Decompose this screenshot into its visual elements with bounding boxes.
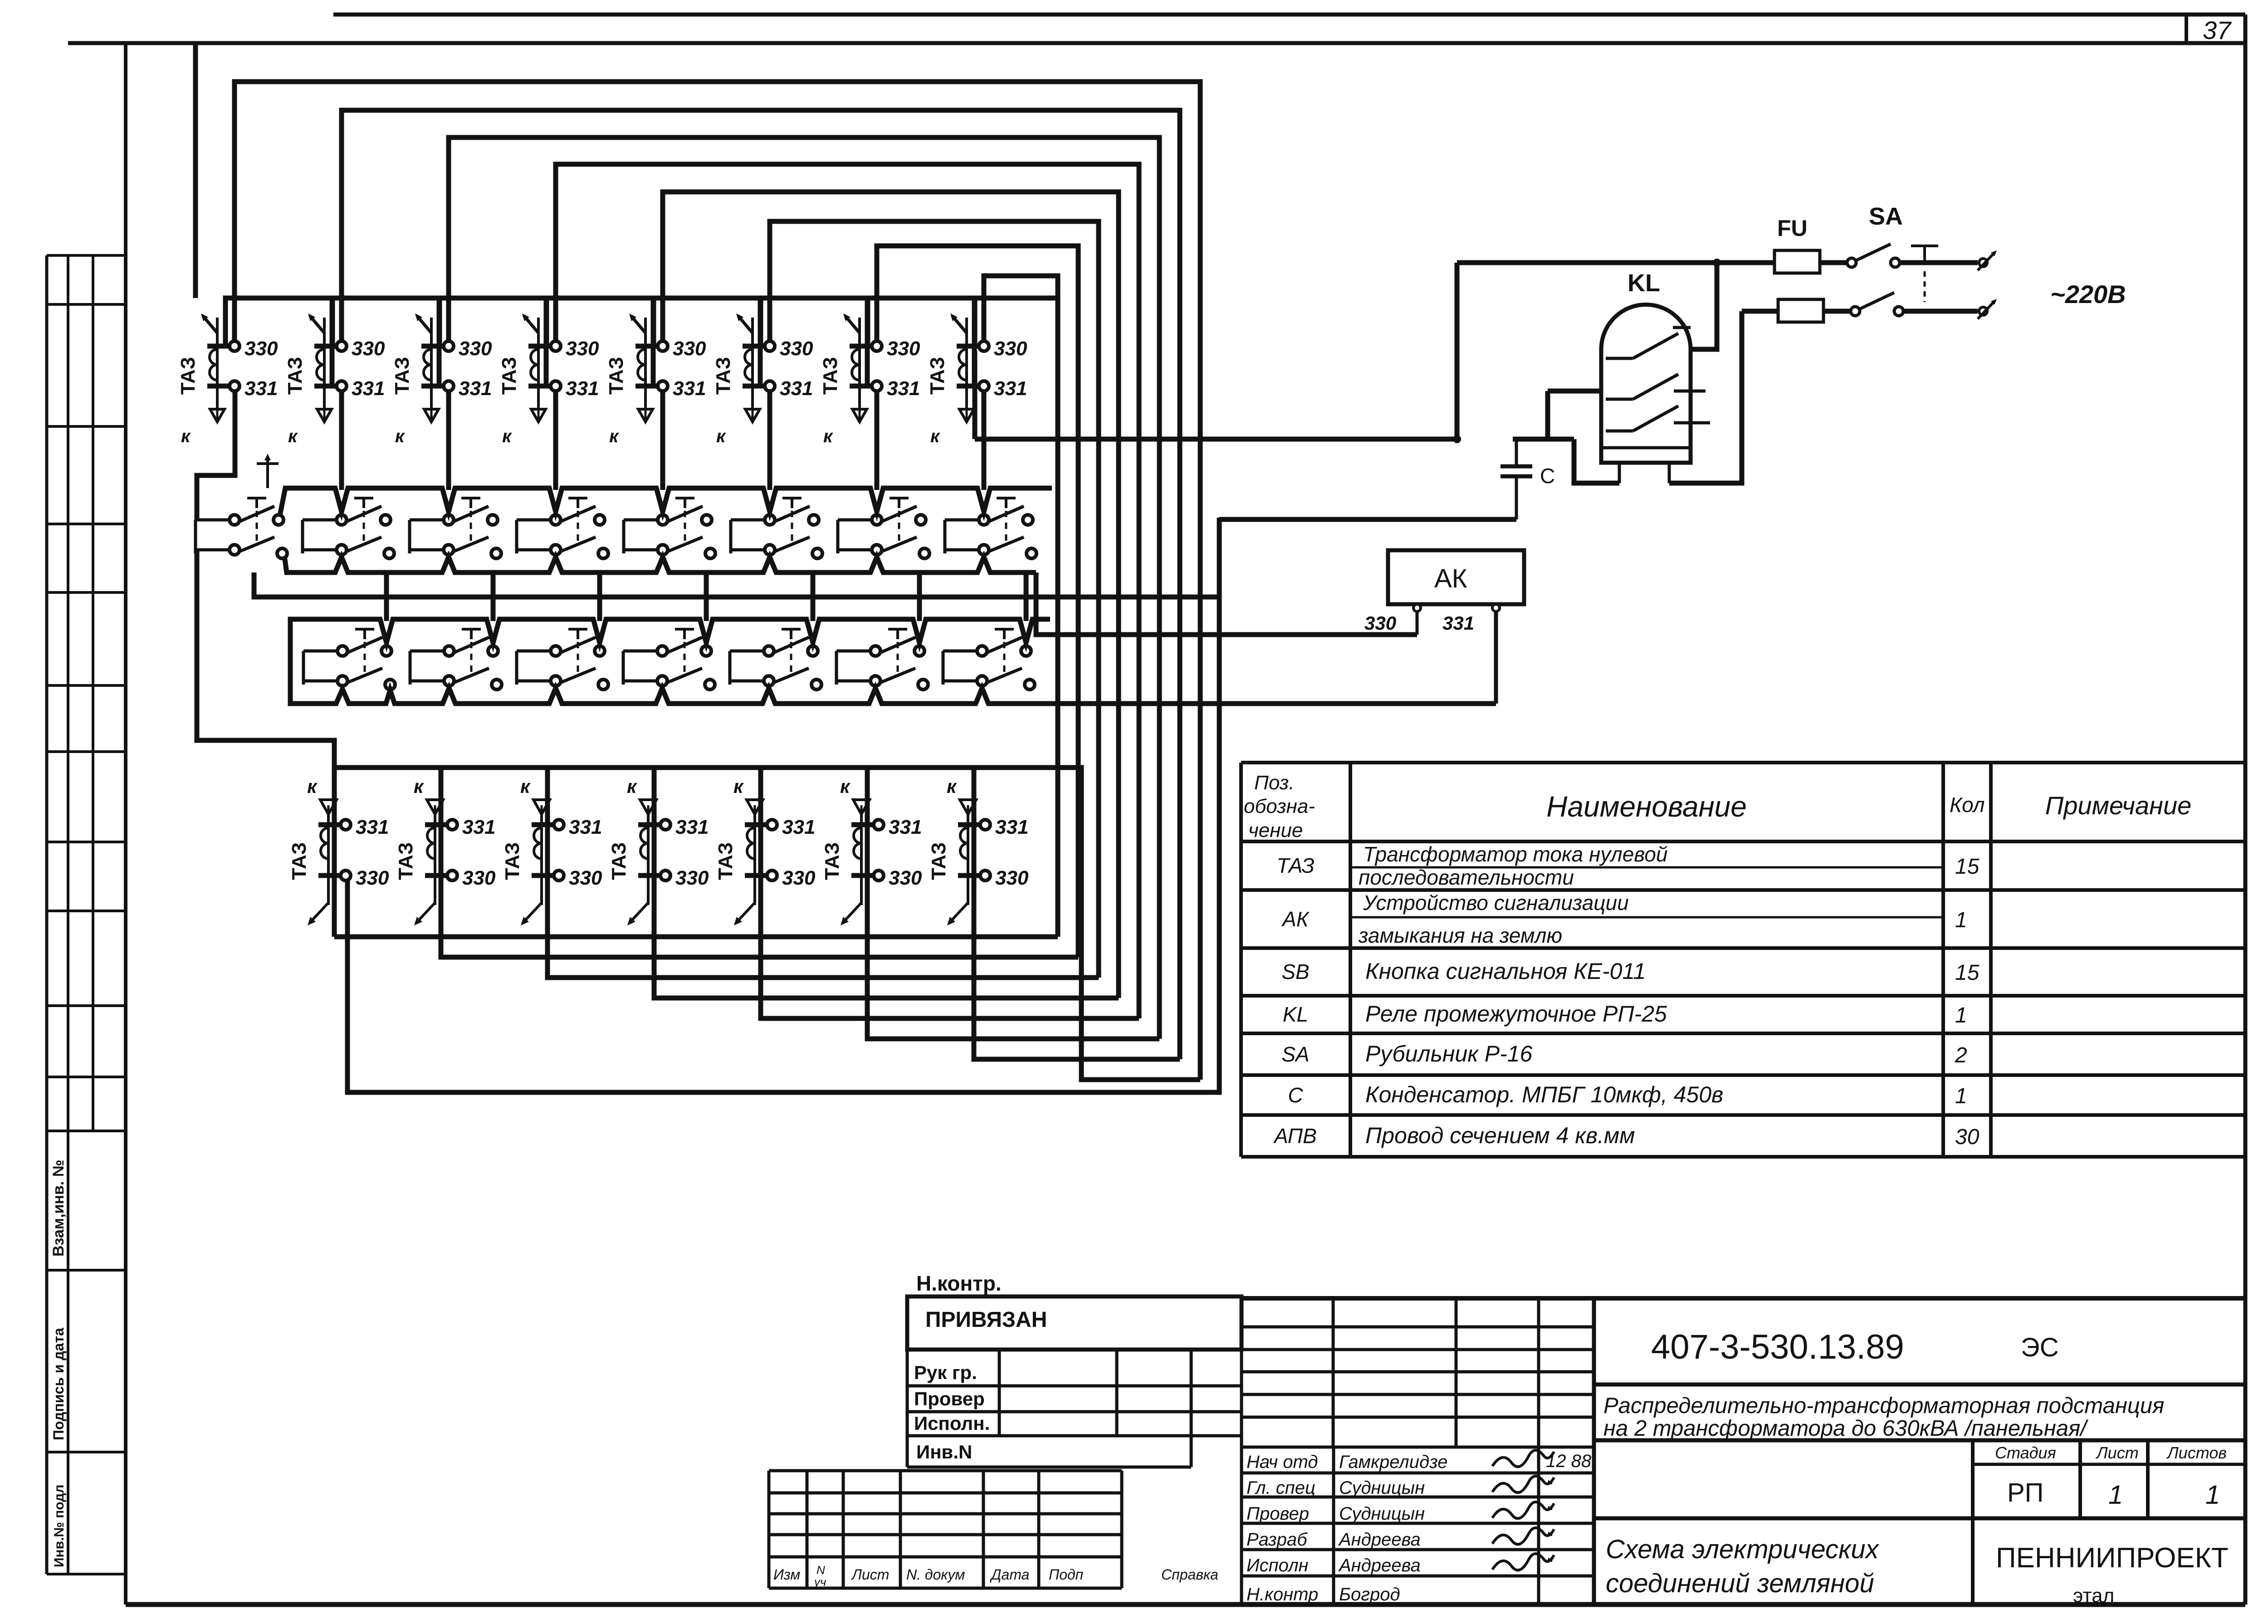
- svg-text:ЭС: ЭС: [2021, 1333, 2059, 1362]
- button SB10 (row 2) actuator T: [462, 629, 481, 676]
- svg-text:к: к: [716, 426, 726, 446]
- node AK terminal 330: [1413, 604, 1421, 611]
- svg-text:к: к: [930, 426, 940, 446]
- fuse FU2: [1778, 299, 1823, 322]
- svg-text:330: 330: [994, 338, 1027, 360]
- svg-text:C: C: [1540, 464, 1555, 488]
- wire jumper TA3 top #8: [975, 298, 1058, 346]
- svg-text:330: 330: [244, 338, 278, 360]
- svg-text:330: 330: [673, 338, 706, 360]
- wire jumper TA3 bottom #13 over to #14: [761, 768, 873, 876]
- svg-text:Справка: Справка: [1161, 1566, 1218, 1583]
- transformer TA3 #12 (bottom row): [608, 776, 709, 925]
- wire jumper TA3 bottom #9 over to #10: [334, 768, 447, 876]
- button SB15 (row 2) bracket: [943, 651, 977, 685]
- node terminal L (to 220V): [1978, 250, 1997, 270]
- svg-text:Изм: Изм: [773, 1566, 800, 1583]
- svg-text:ПЕННИИПРОЕКТ: ПЕННИИПРОЕКТ: [1996, 1542, 2229, 1574]
- svg-text:к: к: [840, 776, 850, 797]
- wire SA1 to terminal: [1900, 260, 1978, 265]
- switch SA actuator mark: [1911, 246, 1938, 302]
- button SB8 (row 1) contacts: [979, 506, 1036, 558]
- svg-text:330: 330: [889, 867, 922, 889]
- button SB13 (row 2) contacts: [764, 637, 821, 690]
- svg-text:KL: KL: [1283, 1003, 1308, 1026]
- svg-text:Гл. спец: Гл. спец: [1246, 1478, 1315, 1498]
- svg-text:ТАЗ: ТАЗ: [928, 842, 950, 880]
- svg-text:331: 331: [887, 377, 920, 400]
- node AK terminal 331: [1492, 604, 1500, 611]
- svg-text:Поз.: Поз.: [1254, 772, 1295, 794]
- fuse FU1: [1774, 250, 1820, 273]
- svg-text:Гамкрелидзе: Гамкрелидзе: [1339, 1452, 1447, 1472]
- svg-text:к: к: [181, 426, 191, 446]
- svg-text:уч: уч: [813, 1575, 826, 1589]
- svg-text:330: 330: [356, 867, 389, 889]
- wire staircase return #3 from TA3#11: [547, 828, 1099, 978]
- svg-text:АК: АК: [1281, 907, 1310, 931]
- signature row Разраб: [1246, 1528, 1554, 1550]
- svg-text:Подп: Подп: [1049, 1566, 1083, 1583]
- svg-text:Лист: Лист: [2096, 1443, 2139, 1462]
- svg-text:к: к: [307, 776, 318, 797]
- svg-text:330: 330: [459, 338, 492, 360]
- wire node line 330-chain to KL (y968): [975, 263, 1457, 439]
- svg-text:331: 331: [462, 816, 495, 838]
- svg-text:Исполн: Исполн: [1246, 1556, 1309, 1575]
- svg-text:N. докум: N. докум: [906, 1566, 965, 1583]
- svg-text:ПРИВЯЗАН: ПРИВЯЗАН: [925, 1308, 1047, 1332]
- svg-text:331: 331: [356, 816, 389, 838]
- svg-text:15: 15: [1955, 961, 1980, 985]
- button SB12 (row 2) contacts: [657, 637, 715, 690]
- svg-text:Примечание: Примечание: [2045, 791, 2192, 820]
- svg-text:330: 330: [569, 867, 602, 889]
- left margin stamp grid: [47, 255, 126, 1574]
- wire jumper TA3 top #4 to #5: [547, 298, 657, 386]
- svg-text:330: 330: [995, 867, 1029, 889]
- button SB14 (row 2) bracket: [836, 651, 870, 685]
- svg-text:к: к: [502, 426, 512, 446]
- button SB9 (row 2) contacts: [337, 637, 395, 690]
- svg-text:330: 330: [780, 338, 813, 360]
- title block PRIVYAZAN box: [907, 1296, 1242, 1350]
- svg-text:Провер: Провер: [1246, 1504, 1309, 1524]
- relay KL contact 2: [1606, 374, 1706, 399]
- wire staircase return #7 from TA3#15: [974, 828, 1180, 1059]
- wire drop TA3#4 331 to SB row1: [553, 391, 558, 490]
- wire jumper TA3 bottom #12 over to #13: [654, 768, 767, 876]
- button SB5 (row 1) contacts: [658, 506, 715, 558]
- button SB15 (row 2) contacts: [977, 637, 1035, 690]
- svg-text:Рубильник Р-16: Рубильник Р-16: [1365, 1041, 1533, 1066]
- button SB5 (row 1) bracket: [624, 520, 657, 553]
- relay KL contact 3: [1606, 406, 1710, 431]
- title block right box: [1242, 1298, 2245, 1603]
- svg-text:Н.контр: Н.контр: [1246, 1585, 1318, 1604]
- transformer TA3 #8 (top row): [926, 313, 1027, 446]
- svg-text:331: 331: [352, 377, 385, 400]
- svg-text:15: 15: [1955, 855, 1980, 879]
- svg-text:330: 330: [352, 338, 385, 360]
- bottom-left revision grid: [769, 1471, 1122, 1588]
- signature row Гл. спец: [1246, 1476, 1554, 1498]
- svg-text:": ": [1546, 1477, 1553, 1497]
- svg-text:Инв.№ подл: Инв.№ подл: [52, 1485, 67, 1567]
- transformer TA3 #9 (bottom row): [288, 776, 389, 925]
- wire loop 2 from TA3 #2 terminal 330: [342, 110, 1180, 1059]
- button SB11 (row 2) actuator T: [568, 629, 587, 676]
- button SB1 (row 1) bracket: [196, 520, 229, 553]
- device AK box: [1388, 550, 1524, 604]
- svg-text:Рук гр.: Рук гр.: [914, 1362, 977, 1383]
- svg-text:330: 330: [1364, 612, 1396, 634]
- wire loop 6 from TA3 #6 terminal 330: [770, 221, 1099, 978]
- wire drop TA3#6 331 to SB row1: [767, 391, 772, 490]
- wire drop TA3#1 331 to SB1 bracket: [197, 391, 235, 520]
- wire loop 1 from TA3 #1 terminal 330: [235, 82, 1200, 1080]
- svg-text:Трансформатор тока нулевой: Трансформатор тока нулевой: [1363, 842, 1667, 866]
- svg-text:Подпись и дата: Подпись и дата: [50, 1328, 67, 1440]
- title block middle grid: [1242, 1298, 1594, 1603]
- button SB7 (row 1) contacts: [872, 506, 929, 558]
- wire SB row1 bottom chain: [284, 556, 1036, 572]
- transformer TA3 #2 (top row): [284, 313, 385, 446]
- button SB3 (row 1) bracket: [410, 520, 443, 553]
- svg-text:": ": [1546, 1555, 1553, 1575]
- svg-text:к: к: [414, 776, 424, 797]
- wire SB row2 bottom chain to AK 331: [318, 688, 1496, 704]
- svg-text:KL: KL: [1628, 269, 1660, 297]
- svg-text:Листов: Листов: [2166, 1443, 2227, 1462]
- table row АПВ: [1273, 1123, 1980, 1149]
- button SB11 (row 2) bracket: [517, 651, 550, 685]
- svg-text:ТАЗ: ТАЗ: [395, 842, 417, 880]
- svg-text:соединений земляной: соединений земляной: [1606, 1569, 1874, 1598]
- transformer TA3 #6 (top row): [712, 313, 813, 446]
- svg-text:12 88: 12 88: [1546, 1451, 1592, 1471]
- svg-text:Провер: Провер: [914, 1388, 985, 1409]
- button SB1 (row 1) actuator T: [247, 498, 266, 545]
- button SB7 (row 1) actuator T: [890, 498, 909, 545]
- svg-text:Инв.N: Инв.N: [916, 1441, 972, 1463]
- svg-text:обозна-: обозна-: [1244, 795, 1315, 817]
- svg-text:Андреева: Андреева: [1338, 1530, 1421, 1550]
- svg-text:331: 331: [459, 377, 492, 400]
- wire drop TA3#3 331 to SB row1: [446, 391, 451, 490]
- wire staircase return #4 from TA3#12: [654, 828, 1119, 998]
- svg-text:SA: SA: [1869, 203, 1903, 230]
- svg-text:Судницын: Судницын: [1339, 1504, 1425, 1524]
- svg-text:~220В: ~220В: [2050, 280, 2126, 308]
- svg-text:Нач отд: Нач отд: [1246, 1452, 1318, 1472]
- svg-text:АПВ: АПВ: [1273, 1124, 1317, 1148]
- svg-text:331: 331: [780, 377, 813, 400]
- table row ТАЗ: [1276, 842, 1979, 889]
- svg-text:к: к: [609, 426, 619, 446]
- svg-text:Н.контр.: Н.контр.: [916, 1272, 1002, 1295]
- svg-text:ТАЗ: ТАЗ: [177, 357, 199, 395]
- svg-text:ТАЗ: ТАЗ: [288, 842, 310, 880]
- wire staircase return #5 from TA3#13: [761, 828, 1139, 1018]
- wire jumper TA3 top #3 to #4: [440, 298, 550, 386]
- transformer TA3 #10 (bottom row): [395, 776, 496, 925]
- junction dot KL supply: [1713, 259, 1721, 267]
- button SB14 (row 2) actuator T: [888, 629, 907, 676]
- svg-text:Устройство сигнализации: Устройство сигнализации: [1363, 891, 1629, 915]
- wire fuse FU2 line: [1742, 309, 1778, 314]
- signature row Провер: [1246, 1502, 1554, 1524]
- wire jumper TA3 top #1 to #2: [225, 298, 336, 386]
- button SB13 (row 2) bracket: [730, 651, 763, 685]
- button SB2 (row 1) actuator T: [354, 498, 373, 545]
- svg-text:Разраб: Разраб: [1246, 1530, 1308, 1550]
- wire TA3#8 330 drop to KL line: [973, 351, 978, 439]
- button SB3 (row 1) actuator T: [461, 498, 480, 545]
- svg-text:Исполн.: Исполн.: [914, 1413, 990, 1434]
- svg-text:ТАЗ: ТАЗ: [501, 842, 523, 880]
- svg-text:331: 331: [994, 377, 1027, 400]
- svg-text:1: 1: [1955, 1084, 1967, 1108]
- switch SA pole 2: [1851, 293, 1903, 316]
- svg-text:Богрод: Богрод: [1339, 1585, 1400, 1604]
- svg-text:к: к: [520, 776, 531, 797]
- button SB7 (row 1) bracket: [838, 520, 871, 553]
- svg-text:к: к: [823, 426, 833, 446]
- wire jumper TA3 bottom #10 over to #11: [441, 768, 553, 876]
- switch SA pole 1: [1847, 244, 1900, 267]
- button SB4 (row 1) actuator T: [568, 498, 587, 545]
- dagger symbol at SB row1 left end: [257, 454, 279, 488]
- button SB13 (row 2) actuator T: [782, 629, 801, 676]
- wire SB row1 top chain: [280, 488, 1052, 515]
- button SB11 (row 2) contacts: [551, 637, 608, 690]
- svg-text:к: к: [627, 776, 637, 797]
- wire feed from top frame to TA3 #1 jumper: [193, 45, 198, 298]
- wire supply top line to FU1: [1457, 260, 1774, 265]
- svg-text:1: 1: [2205, 1480, 2220, 1510]
- svg-text:331: 331: [244, 377, 278, 400]
- signature row Исполн: [1246, 1554, 1554, 1575]
- transformer TA3 #4 (top row): [498, 313, 599, 446]
- svg-text:Наименование: Наименование: [1546, 790, 1747, 823]
- wire SB row1 bus below: [254, 572, 1219, 597]
- svg-text:331: 331: [675, 816, 709, 838]
- wire staircase return #2 from TA3#10: [441, 828, 1078, 957]
- wire drop TA3#5 331 to SB row1: [660, 391, 665, 490]
- button SB8 (row 1) bracket: [945, 520, 978, 553]
- svg-text:ТАЗ: ТАЗ: [1276, 854, 1314, 877]
- svg-text:331: 331: [889, 816, 922, 838]
- table row KL: [1283, 1001, 1967, 1027]
- svg-text:330: 330: [462, 867, 496, 889]
- transformer TA3 #5 (top row): [605, 313, 706, 446]
- button SB10 (row 2) contacts: [444, 637, 502, 690]
- svg-text:FU: FU: [1777, 215, 1808, 241]
- svg-text:С: С: [1288, 1083, 1303, 1107]
- svg-text:к: к: [288, 426, 298, 446]
- svg-text:": ": [1546, 1503, 1553, 1523]
- button SB10 (row 2) bracket: [410, 651, 444, 685]
- button SB2 (row 1) contacts: [337, 506, 394, 558]
- button SB12 (row 2) actuator T: [675, 629, 694, 676]
- svg-text:Стадия: Стадия: [1995, 1443, 2056, 1462]
- button SB4 (row 1) contacts: [551, 506, 608, 558]
- wire FU2 to SA2: [1823, 309, 1851, 314]
- button SB15 (row 2) actuator T: [995, 629, 1014, 676]
- wire long return from TA3#9 330 to C-line riser: [347, 518, 1219, 1092]
- svg-text:30: 30: [1955, 1125, 1980, 1149]
- svg-text:ТАЗ: ТАЗ: [284, 357, 306, 395]
- svg-text:последовательности: последовательности: [1359, 866, 1574, 889]
- svg-text:1: 1: [1955, 1003, 1967, 1027]
- table row С: [1288, 1082, 1967, 1108]
- wire loop 7 from TA3 #7 terminal 330: [877, 246, 1078, 957]
- svg-text:ТАЗ: ТАЗ: [926, 357, 948, 395]
- sheet number box 37: [2186, 15, 2232, 44]
- svg-text:330: 330: [887, 338, 920, 360]
- svg-text:2: 2: [1955, 1043, 1967, 1067]
- button SB6 (row 1) bracket: [731, 520, 764, 553]
- transformer TA3 #13 (bottom row): [714, 776, 816, 925]
- button SB8 (row 1) actuator T: [997, 498, 1016, 545]
- svg-text:SA: SA: [1281, 1042, 1309, 1066]
- svg-text:Лист: Лист: [851, 1566, 889, 1583]
- svg-text:1: 1: [1955, 908, 1967, 932]
- svg-text:ТАЗ: ТАЗ: [714, 842, 737, 880]
- button SB3 (row 1) contacts: [444, 506, 501, 558]
- svg-text:Кнопка сигнальноя КЕ-011: Кнопка сигнальноя КЕ-011: [1365, 959, 1646, 984]
- page frame bottom border: [126, 1602, 2245, 1607]
- svg-text:407-3-530.13.89: 407-3-530.13.89: [1651, 1328, 1904, 1366]
- transformer TA3 #14 (bottom row): [821, 776, 922, 925]
- svg-text:к: к: [395, 426, 405, 446]
- svg-text:замыкания на землю: замыкания на землю: [1358, 924, 1562, 947]
- table row SA: [1281, 1041, 1967, 1067]
- svg-text:Реле промежуточное РП-25: Реле промежуточное РП-25: [1365, 1001, 1667, 1027]
- svg-text:": ": [1546, 1529, 1553, 1549]
- wire KL left lower connections: [1548, 389, 1601, 394]
- svg-text:ТАЗ: ТАЗ: [712, 357, 734, 395]
- wire drop TA3#8 331 to SB row1: [982, 391, 987, 490]
- wire jumper TA3 bottom #15 right side: [974, 768, 1200, 1080]
- wire jumper TA3 top #6 to #7: [761, 298, 871, 386]
- table row АК: [1281, 891, 1967, 947]
- components table grid: [1241, 763, 2245, 1157]
- svg-text:ТАЗ: ТАЗ: [819, 357, 841, 395]
- wire SB row2 outer bracket unit1: [290, 619, 318, 704]
- page frame right border: [2244, 15, 2248, 1604]
- svg-text:к: к: [733, 776, 744, 797]
- wire staircase return #6 from TA3#14: [867, 828, 1159, 1039]
- wire jumper TA3 bottom #11 over to #12: [547, 768, 660, 876]
- transformer TA3 #15 (bottom row): [928, 776, 1029, 925]
- relay KL coil body: [1601, 305, 1691, 484]
- transformer TA3 #7 (top row): [819, 313, 920, 446]
- svg-text:330: 330: [782, 867, 816, 889]
- svg-text:на 2 трансформатора до 630кВА: на 2 трансформатора до 630кВА /панельная…: [1603, 1416, 2088, 1441]
- wire SB row1 end drop to AK 330 line: [1036, 572, 1417, 635]
- page frame left border: [124, 43, 127, 1604]
- svg-text:331: 331: [782, 816, 815, 838]
- svg-text:330: 330: [566, 338, 599, 360]
- button SB1 (row 1) contacts: [230, 506, 287, 558]
- wire KL right to fuse FU2 line: [1669, 311, 1742, 483]
- svg-text:Судницын: Судницын: [1339, 1478, 1425, 1498]
- button SB6 (row 1) actuator T: [782, 498, 802, 545]
- wire loop 8 from TA3 #8 terminal 330: [984, 276, 1058, 937]
- wire drop TA3#7 331 to SB row1: [875, 391, 880, 490]
- capacitor C: [1501, 439, 1532, 519]
- wire jumper TA3 top #7 to #8: [868, 298, 978, 386]
- svg-text:Схема электрических: Схема электрических: [1606, 1535, 1880, 1564]
- svg-text:ТАЗ: ТАЗ: [821, 842, 843, 880]
- svg-text:этал: этал: [2073, 1585, 2114, 1607]
- wire feeds SB row1 bottom to SB row2: [384, 572, 389, 621]
- transformer TA3 #3 (top row): [391, 313, 492, 446]
- button SB2 (row 1) bracket: [303, 520, 336, 553]
- table header texts: [1244, 772, 2191, 841]
- relay KL contact 1: [1606, 328, 1691, 358]
- svg-text:к: к: [947, 776, 957, 797]
- wire loop 3 from TA3 #3 terminal 330: [449, 137, 1159, 1039]
- wire SB row2 top chain: [299, 619, 1050, 643]
- wire jumper TA3 bottom #14 over to #15: [867, 768, 980, 876]
- svg-text:Взам,инв. №: Взам,инв. №: [50, 1159, 67, 1257]
- transformer TA3 #11 (bottom row): [501, 776, 602, 925]
- svg-text:37: 37: [2203, 16, 2232, 44]
- transformer TA3 #1 (top row): [177, 313, 278, 446]
- svg-text:331: 331: [566, 377, 599, 400]
- signature row Нач отд: [1246, 1450, 1592, 1472]
- revision grid labels: [773, 1563, 1218, 1589]
- svg-text:331: 331: [569, 816, 602, 838]
- svg-text:331: 331: [995, 816, 1028, 838]
- svg-text:чение: чение: [1248, 819, 1303, 841]
- wire jumper TA3 top #2 to #3: [332, 298, 443, 386]
- button SB5 (row 1) actuator T: [675, 498, 694, 545]
- svg-text:РП: РП: [2007, 1478, 2043, 1507]
- wire FU1 to SA1: [1820, 260, 1847, 265]
- button SB4 (row 1) bracket: [517, 520, 550, 553]
- page frame top border line (outer): [333, 13, 2245, 17]
- svg-text:1: 1: [2108, 1480, 2123, 1510]
- node terminal N (to 220V): [1978, 299, 1997, 319]
- table row SB: [1281, 959, 1979, 985]
- svg-text:Кол: Кол: [1950, 793, 1985, 817]
- svg-text:ТАЗ: ТАЗ: [498, 357, 520, 395]
- button SB6 (row 1) contacts: [765, 506, 822, 558]
- wire loop 5 from TA3 #5 terminal 330: [663, 192, 1119, 998]
- button SB9 (row 2) bracket: [303, 651, 337, 685]
- svg-text:АК: АК: [1434, 564, 1467, 593]
- svg-text:331: 331: [1442, 612, 1474, 634]
- page frame top border line (inner): [68, 41, 2245, 45]
- svg-text:Провод сечением 4 кв.мм: Провод сечением 4 кв.мм: [1365, 1123, 1635, 1148]
- button SB9 (row 2) actuator T: [355, 629, 374, 676]
- wire KL top contact to supply: [1691, 263, 1717, 349]
- wire drop TA3#2 331 to SB row1: [339, 391, 344, 490]
- wire staircase return #1 (to loop8): [334, 934, 1058, 939]
- wire loop 4 from TA3 #4 terminal 330: [556, 164, 1139, 1018]
- title block left rows: [907, 1296, 1242, 1603]
- svg-text:SB: SB: [1281, 960, 1309, 983]
- svg-text:Конденсатор. МПБГ 10мкф, 450в: Конденсатор. МПБГ 10мкф, 450в: [1365, 1082, 1723, 1107]
- svg-text:Дата: Дата: [990, 1566, 1029, 1583]
- svg-text:Распределительно-трансформатор: Распределительно-трансформаторная подста…: [1603, 1394, 2164, 1418]
- wire left feed down to bottom row (from SB1 bracket): [197, 550, 334, 937]
- wire jumper TA3 top #5 to #6: [654, 298, 764, 386]
